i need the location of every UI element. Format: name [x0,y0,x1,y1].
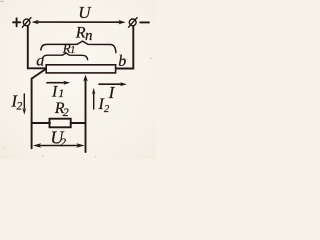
svg-text:1: 1 [70,45,75,56]
svg-text:2: 2 [17,101,23,113]
svg-text:2: 2 [63,105,69,119]
svg-text:1: 1 [58,86,64,100]
svg-text:U: U [78,3,92,22]
svg-text:a: a [36,53,44,70]
svg-text:2: 2 [104,104,110,115]
svg-text:I: I [51,83,58,100]
svg-text:b: b [118,53,126,70]
svg-text:2: 2 [60,135,66,149]
svg-text:п: п [85,28,93,44]
